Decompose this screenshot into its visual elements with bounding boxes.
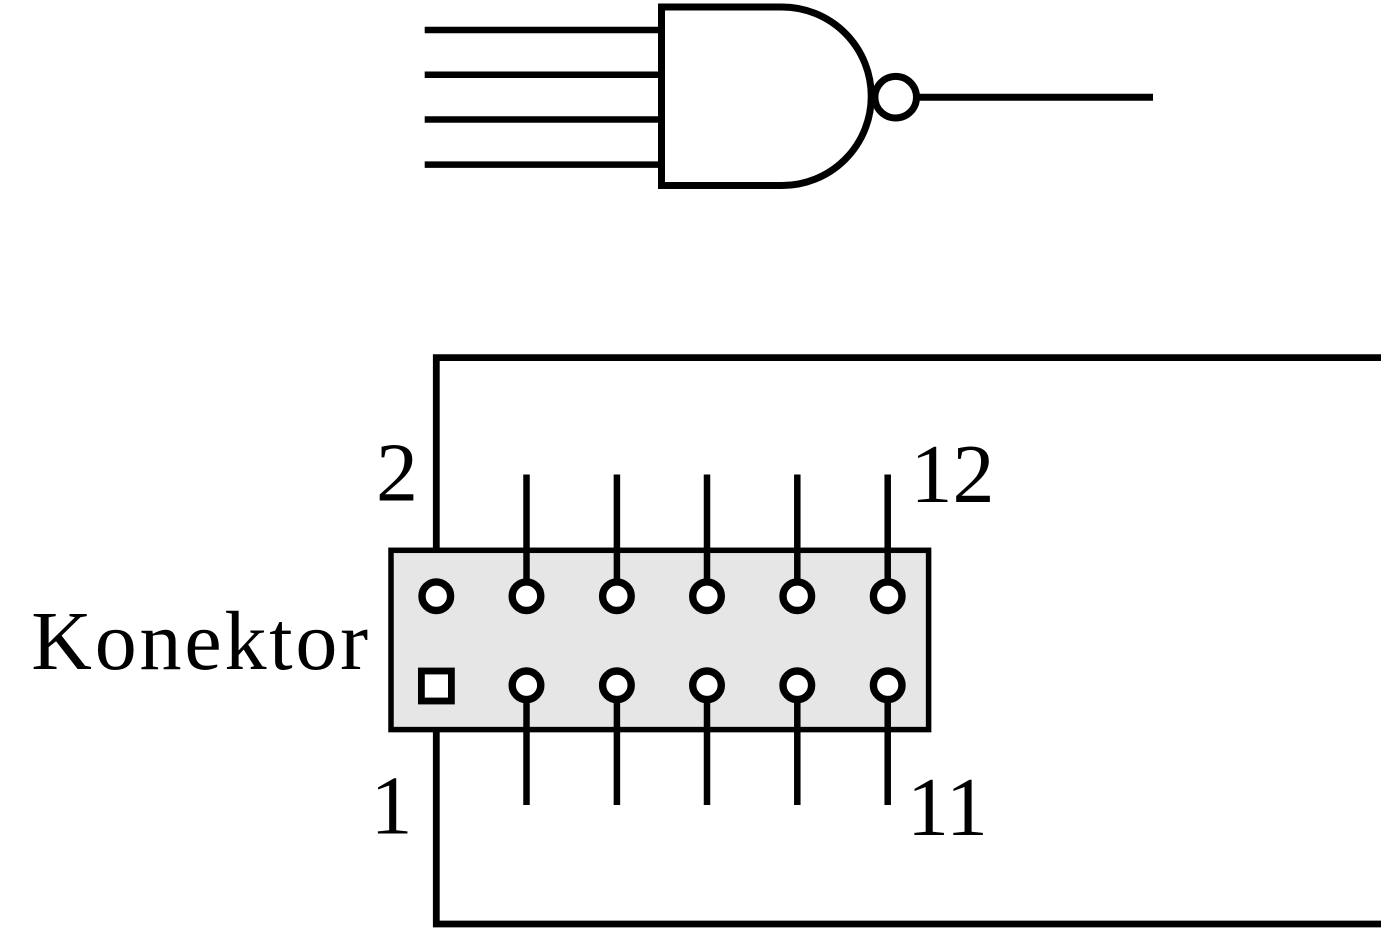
connector pin 8 (circle)	[693, 582, 722, 611]
wire: NAND input 3	[425, 116, 663, 123]
svg-text:11: 11	[907, 761, 988, 854]
svg-text:2: 2	[376, 427, 418, 520]
connector pin 11 (circle)	[873, 671, 902, 700]
connector pin 3 (circle)	[512, 671, 541, 700]
connector pin 7 (circle)	[693, 671, 722, 700]
wire: pin 12 stub	[884, 475, 891, 597]
wire: pin 5 stub	[614, 686, 621, 805]
wire: net from connector pin 2 up and right	[436, 358, 1381, 596]
connector pin 1 (square)	[421, 671, 451, 701]
wire: pin 11 stub	[884, 686, 891, 805]
connector pin 5 (circle)	[603, 671, 632, 700]
connector pin 10 (circle)	[783, 582, 812, 611]
svg-text:1: 1	[371, 760, 413, 853]
svg-text:Konektor: Konektor	[31, 595, 371, 688]
svg-text:12: 12	[911, 428, 995, 521]
wire: NAND input 4	[425, 161, 663, 168]
wire: pin 4 stub	[523, 475, 530, 597]
wire: pin 9 stub	[794, 686, 801, 805]
wire: NAND input 2	[425, 71, 663, 78]
wire: NAND output	[917, 94, 1154, 101]
connector pin 9 (circle)	[783, 671, 812, 700]
wire: net from connector pin 1 down and right	[436, 686, 1381, 924]
wire: pin 8 stub	[704, 475, 711, 597]
connector body (Konektor)	[391, 550, 929, 729]
wire: pin 3 stub	[523, 686, 530, 805]
wire: NAND input 1	[425, 27, 663, 34]
connector pin 12 (circle)	[873, 582, 902, 611]
wire: pin 6 stub	[614, 475, 621, 597]
wire: pin 7 stub	[704, 686, 711, 805]
wire: pin 10 stub	[794, 475, 801, 597]
connector pin 4 (circle)	[512, 582, 541, 611]
NAND gate U1 inversion bubble	[875, 76, 917, 118]
connector pin 2 (circle)	[422, 582, 451, 611]
NAND gate U1 body	[662, 7, 872, 186]
connector pin 6 (circle)	[603, 582, 632, 611]
